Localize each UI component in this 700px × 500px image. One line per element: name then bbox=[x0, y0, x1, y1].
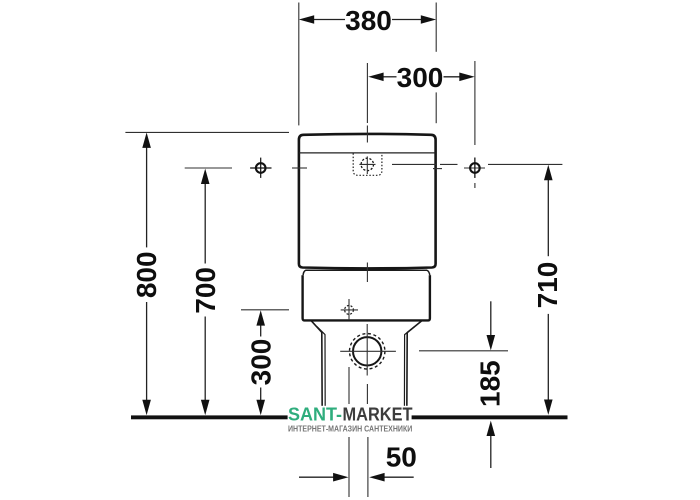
svg-text:300: 300 bbox=[245, 339, 276, 386]
svg-text:380: 380 bbox=[345, 5, 392, 36]
svg-text:MARKET: MARKET bbox=[343, 404, 413, 424]
svg-text:50: 50 bbox=[386, 441, 417, 472]
svg-text:710: 710 bbox=[532, 262, 563, 309]
svg-text:ИНТЕРНЕТ-МАГАЗИН САНТЕХНИКИ: ИНТЕРНЕТ-МАГАЗИН САНТЕХНИКИ bbox=[288, 423, 412, 433]
svg-text:SANT-: SANT- bbox=[288, 404, 342, 424]
svg-text:185: 185 bbox=[475, 360, 506, 407]
svg-text:700: 700 bbox=[190, 267, 221, 314]
svg-text:300: 300 bbox=[397, 62, 444, 93]
svg-text:800: 800 bbox=[131, 251, 162, 298]
